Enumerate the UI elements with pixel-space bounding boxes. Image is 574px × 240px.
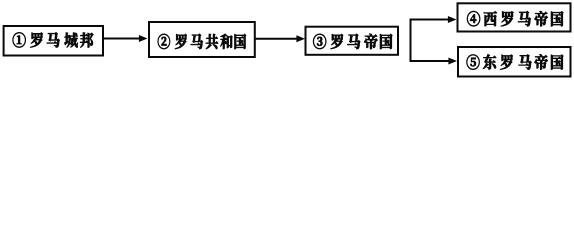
arrow wire: box2 -> box3 [255, 35, 305, 42]
box 5: ⑤东罗马帝国 (Eastern Roman Empire) [458, 47, 571, 77]
white background [0, 0, 574, 84]
label text ④西罗马帝国 [467, 11, 563, 26]
arrow wire: box1 -> box2 [104, 35, 148, 42]
box 2: ②罗马共和国 (Roman Republic) [149, 22, 255, 57]
label text ②罗马共和国 [158, 34, 246, 49]
box 4: ④西罗马帝国 (Western Roman Empire) [458, 3, 571, 31]
label text ③罗马帝国 [313, 34, 392, 49]
arrow wire: branch -> box4 (west) [410, 16, 457, 23]
branch wire: vertical split line from box3 [410, 19, 412, 63]
label text ①罗马城邦 [13, 32, 94, 47]
box 1: ①罗马城邦 (Roman city-state) [4, 26, 103, 56]
arrow wire: branch -> box5 (east) [410, 58, 458, 65]
label text ⑤东罗马帝国 [467, 54, 564, 69]
box 3: ③罗马帝国 (Roman Empire) [306, 27, 399, 55]
